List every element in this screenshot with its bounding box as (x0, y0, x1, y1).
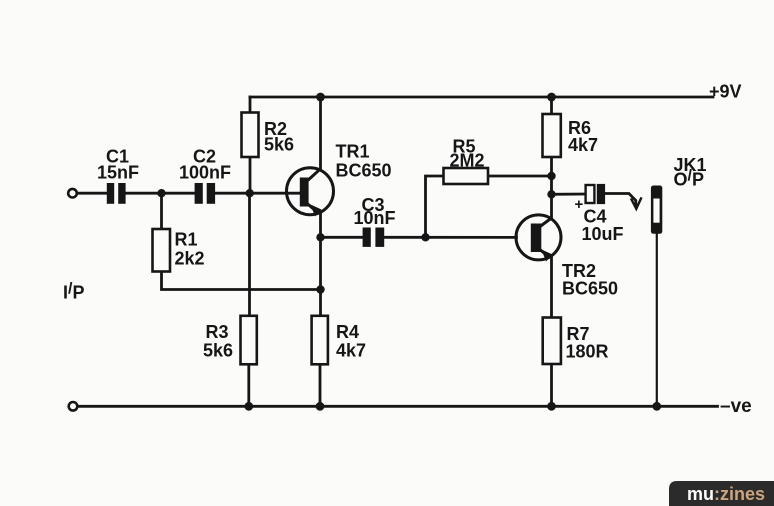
jack JK1 (651, 186, 662, 234)
svg-text:180R: 180R (566, 342, 609, 362)
resistor R3 (241, 316, 257, 365)
resistor R1 (153, 229, 171, 272)
junction: R6 at rail (547, 93, 556, 102)
transistor TR2 (516, 215, 561, 262)
wire: emitter node to C3 (321, 236, 363, 239)
svg-text:+: + (575, 196, 584, 213)
input terminal (68, 189, 77, 198)
svg-text:10uF: 10uF (582, 224, 624, 244)
wire: C3 node up to R5 (426, 176, 444, 237)
wire: R1 bottom to emitter line (162, 271, 321, 290)
wire: C3 to TR2 base (384, 236, 517, 239)
junction: node A (C1/C2/R1) (157, 189, 165, 197)
muzines watermark (669, 481, 774, 506)
svg-text:4k7: 4k7 (568, 135, 598, 155)
wire: R6 top to +9V rail (550, 97, 553, 114)
capacitor C3 (363, 228, 385, 247)
junction: R3 at -ve rail (244, 402, 253, 411)
svg-text:2k2: 2k2 (175, 249, 205, 269)
junction: R7 at -ve rail (547, 402, 556, 411)
resistor R5 (444, 168, 489, 184)
wire: R2 bottom to base node (249, 157, 252, 194)
svg-text:BC650: BC650 (562, 279, 618, 299)
capacitor C2 (195, 183, 215, 204)
-ve rail (78, 405, 718, 408)
wire: TR1 collector to +9V rail (319, 97, 322, 169)
wire: R5 right to TR2 collector line (488, 175, 552, 178)
svg-text:100nF: 100nF (179, 163, 231, 183)
output terminal (bottom rail, -ve) (69, 402, 78, 411)
transistor TR1 (287, 168, 334, 217)
wire: JK1 sleeve to -ve rail (656, 234, 658, 406)
resistor R2 (242, 113, 259, 158)
svg-text:10nF: 10nF (354, 208, 396, 228)
wire: input to C1 (78, 192, 108, 195)
wire: R3 bottom to -ve rail (247, 364, 250, 406)
svg-text:4k7: 4k7 (336, 341, 366, 361)
wire: base node down to R3 (248, 193, 251, 316)
junction: JK1 at -ve rail (652, 402, 661, 411)
svg-text:+9V: +9V (709, 82, 742, 102)
wire: TR2 emitter down to R7 (550, 256, 553, 318)
junction: C3 / R5 / TR2 base (421, 233, 429, 241)
output arrowhead (632, 199, 642, 209)
svg-text:2M2: 2M2 (450, 151, 485, 171)
svg-text:–ve: –ve (720, 396, 752, 417)
svg-text:I/P: I/P (63, 281, 84, 303)
svg-text:R4: R4 (336, 322, 359, 342)
wire: C2 to TR1 base (215, 192, 301, 195)
wire: R4 bottom to -ve rail (319, 364, 322, 406)
wire: R6 bottom to TR2 collector (550, 157, 553, 219)
junction: R5 / collector line (547, 172, 555, 180)
wire: R2 top to +9V rail (249, 97, 252, 113)
resistor R4 (312, 316, 328, 365)
junction: R4 at -ve rail (316, 402, 325, 411)
junction: TR1 base node (C2/R2/R3) (246, 189, 254, 197)
resistor R7 (543, 318, 561, 365)
svg-text:R3: R3 (206, 322, 229, 342)
junction: TR1 emitter / C3 (316, 233, 324, 241)
junction: TR1 collector at rail (316, 93, 325, 102)
wire: collector node to C4 (552, 193, 586, 196)
junction: collector / C4 (547, 190, 555, 198)
capacitor C1 (107, 183, 126, 204)
wire: C4 to output arrow (605, 194, 636, 206)
wire: C1 to C2 through node A (126, 192, 195, 195)
svg-text:R1: R1 (175, 230, 198, 250)
+9V rail (250, 96, 713, 99)
svg-text:5k6: 5k6 (203, 341, 233, 361)
resistor R6 (543, 114, 561, 157)
wire: R7 bottom to -ve rail (550, 364, 553, 406)
capacitor C4 (electrolytic, + plate outlined) (575, 184, 606, 213)
svg-text:15nF: 15nF (97, 163, 139, 183)
svg-text:mu:zines: mu:zines (687, 484, 765, 504)
svg-text:TR1: TR1 (336, 142, 370, 162)
junction: R1 return on emitter line (316, 285, 324, 293)
svg-text:BC650: BC650 (336, 161, 392, 181)
wire: node A down to R1 (160, 193, 163, 229)
wire: TR1 emitter down to R4 (319, 212, 322, 316)
svg-text:5k6: 5k6 (264, 135, 294, 155)
